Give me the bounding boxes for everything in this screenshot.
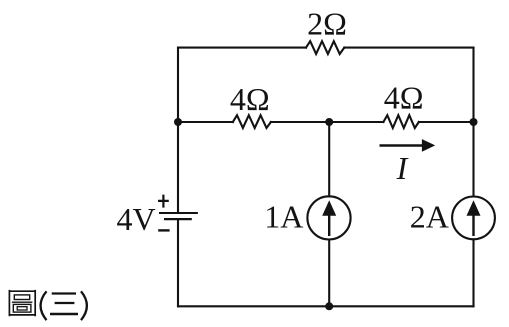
label 2Ω xyxy=(307,6,347,42)
battery plus sign xyxy=(158,195,169,208)
node D dot (bottom junction) xyxy=(325,302,333,310)
svg-text:4V: 4V xyxy=(116,201,155,237)
svg-text:4Ω: 4Ω xyxy=(384,80,424,116)
wire top right segment xyxy=(344,47,473,49)
glyph 圖 bottom 回 inner box xyxy=(17,307,27,310)
current arrow I (direction arrow) xyxy=(380,139,436,152)
wire left vertical lower xyxy=(177,220,179,307)
wire left vertical upper xyxy=(177,48,179,213)
current source 2A circle xyxy=(452,197,495,240)
svg-text:4Ω: 4Ω xyxy=(230,81,270,117)
svg-text:2A: 2A xyxy=(410,198,449,234)
label 1A xyxy=(264,198,303,234)
label 4V xyxy=(116,201,155,237)
resistor 2Ω (zigzag) xyxy=(306,41,344,54)
battery 4V plates xyxy=(159,213,198,219)
node A dot (left-middle junction) xyxy=(174,118,182,126)
current source 2A arrow xyxy=(467,200,481,236)
glyph 圖 inner top small box xyxy=(14,295,29,300)
wire right vertical lower xyxy=(472,239,474,306)
glyph 圖 outer box xyxy=(9,290,35,316)
wire right vertical upper xyxy=(472,48,474,197)
close parenthesis xyxy=(81,291,87,320)
node C dot (right-middle junction) xyxy=(470,118,478,126)
label 4Ω left xyxy=(230,81,270,117)
figure caption 圖(三) xyxy=(9,290,87,320)
label I (current) xyxy=(396,150,409,186)
label 2A xyxy=(410,198,449,234)
svg-text:1A: 1A xyxy=(264,198,303,234)
current source 1A arrow xyxy=(322,200,336,236)
glyph 三 middle stroke xyxy=(55,302,75,304)
wire 1A branch lower xyxy=(328,240,330,307)
glyph 三 top stroke xyxy=(52,292,76,294)
wire 1A branch upper xyxy=(328,122,330,196)
current source 1A circle xyxy=(307,196,350,239)
resistor 4Ω left (zigzag) xyxy=(233,115,271,128)
glyph 圖 middle horizontal stroke xyxy=(12,301,33,303)
open parenthesis xyxy=(41,291,47,320)
wire bottom rail xyxy=(178,305,474,307)
wire top left segment xyxy=(178,47,306,49)
battery minus sign xyxy=(158,229,169,231)
wire middle row: node A to resistor xyxy=(178,121,233,123)
svg-text:I: I xyxy=(396,150,409,186)
glyph 圖 bottom 回 outer box xyxy=(13,304,31,312)
svg-text:2Ω: 2Ω xyxy=(307,6,347,42)
label 4Ω right xyxy=(384,80,424,116)
wire middle row: resistor to node C xyxy=(419,121,474,123)
node B dot (middle junction) xyxy=(325,118,333,126)
resistor 4Ω right (zigzag) xyxy=(383,115,418,128)
wire middle row: between resistors xyxy=(271,121,384,123)
glyph 三 bottom stroke xyxy=(50,313,78,315)
